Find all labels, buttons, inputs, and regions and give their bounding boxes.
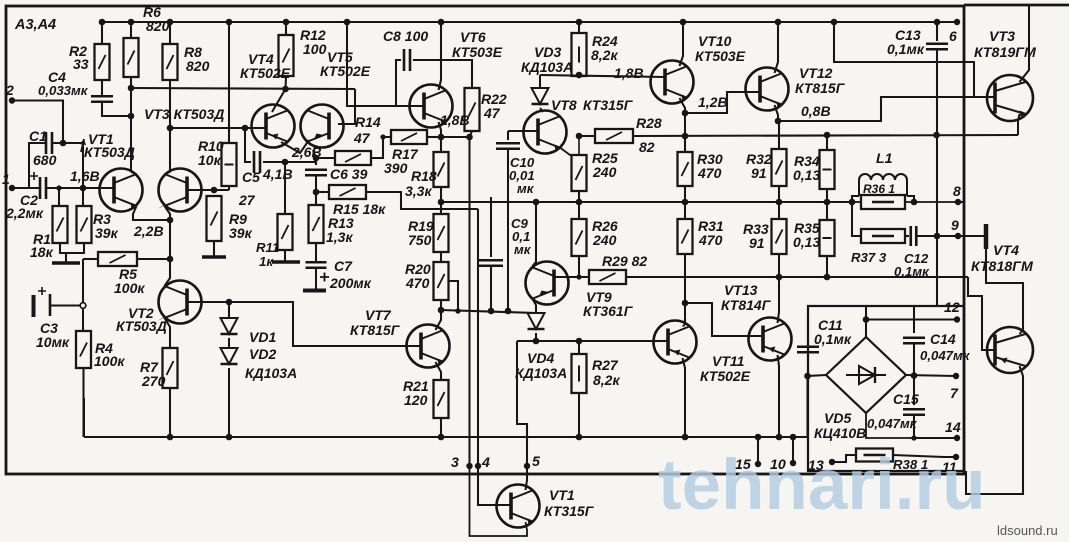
resistor R15 [329,185,366,199]
svg-text:VT3: VT3 [989,29,1015,45]
resistor R7 [163,348,178,388]
svg-text:91: 91 [751,165,767,181]
node node R9 top [211,187,218,194]
wire VT1 collector wire [130,77,132,172]
svg-text:1,6В: 1,6В [70,168,100,184]
node node R15 left [313,189,320,196]
wire R30 bottom wire [684,186,686,202]
node node VT3 collector [167,125,174,132]
capacitor C7 [306,262,327,268]
node node C13 top [934,19,941,26]
svg-text:120: 120 [404,392,428,408]
resistor R33 [772,219,787,254]
capacitor C2 [30,172,46,199]
wire VT3out coll wire [1020,5,1030,82]
svg-text:КТ361Г: КТ361Г [583,303,634,319]
svg-text:750: 750 [408,232,432,248]
wire bottom common bus [84,436,807,438]
node node R20 bottom [438,307,445,314]
wire VT2 base wire [187,301,229,303]
node node bus t10 [790,434,797,441]
svg-text:8,2к: 8,2к [593,372,620,388]
svg-text:0,1мк: 0,1мк [894,264,930,279]
wire VT10 to VT12 base [685,92,760,113]
resistor R27 [572,354,587,393]
svg-text:12: 12 [944,300,960,316]
wire C15 top wire [913,376,915,406]
wire R37 left wire [852,202,861,236]
wire R28 right wire / output line [633,135,1018,136]
resistor R2 [95,44,110,80]
capacitor C8 [404,49,410,71]
svg-text:2,2мк: 2,2мк [5,205,44,221]
node node C10 bot [505,308,512,315]
wire tail to VT2 [137,258,170,260]
resistor R35 [820,220,835,256]
wire R19 top wire [440,202,442,214]
node node VD4 bottom [533,338,540,345]
node node R27 bottom [576,434,583,441]
svg-text:8: 8 [953,183,961,199]
node terminal 8 [955,199,961,205]
capacitor C6 [305,170,327,176]
node node C2 out [56,185,61,190]
wire VD4 top wire [535,311,537,313]
wire bridge bottom wire [866,413,914,438]
wire R31 bottom wire [684,254,686,325]
node node VT6 coll top [438,19,445,26]
node node R18 bottom [438,199,445,206]
wire VT9 collector wire [533,299,537,311]
node node R27 top [576,338,583,345]
wire VT3out emit wire [1018,114,1020,135]
svg-text:14: 14 [945,420,961,436]
transistor VT4 out [987,327,1033,373]
node node bridge left [804,373,811,380]
node node rail R30 [682,199,689,206]
wire bottom bus left riser [83,398,85,437]
svg-text:C6 39: C6 39 [330,166,368,182]
node node R28 right [682,133,689,140]
svg-text:R14: R14 [355,114,381,130]
svg-text:R28: R28 [636,115,662,131]
svg-text:R29 82: R29 82 [602,253,647,269]
wire C3 right wire [51,304,80,306]
wire L1 right wire [907,196,914,202]
wire R21 bottom wire [440,418,442,437]
wire VT4out coll wire [966,366,1023,494]
wire VT9 emitter wire [533,202,537,266]
svg-text:КТ503Д: КТ503Д [84,144,135,160]
svg-text:VT7: VT7 [365,307,392,323]
wire C12 right wire [917,235,986,237]
wire VT4out emit feed [986,249,1023,330]
wire VD chain top [228,302,230,318]
wire base line VT10 [540,75,665,77]
node node R20 tap [455,308,460,313]
node terminal 12 [954,316,960,322]
node node C13 col [934,233,941,240]
wire R12 bottom wire [284,76,287,89]
capacitor C11 [797,347,819,353]
wire VT4 base wire [252,127,266,129]
transistor VT10 [651,61,694,104]
node terminal 2 [9,97,15,103]
wire C10 bottom wire [507,149,509,310]
wire VT3 emitter wire [165,206,171,220]
wire VT11 emit wire [683,358,686,437]
svg-text:VD1: VD1 [249,329,276,345]
svg-text:ldsound.ru: ldsound.ru [997,523,1058,538]
node node R12 top [283,19,290,26]
terminal bar VT4 base [984,224,989,249]
wire C9 column top [490,197,492,257]
node node C14 C15 mid [911,372,918,379]
svg-text:VT3 КТ503Д: VT3 КТ503Д [144,106,224,122]
svg-text:VD4: VD4 [527,350,554,366]
arrow to VT1 base [81,139,84,152]
resistor R26 [572,219,587,256]
wire R10 top wire [228,25,230,143]
wire collector line to VT4 base [170,127,260,129]
node node VT13 emit bus [776,434,783,441]
svg-text:82: 82 [639,139,655,155]
svg-text:3,3к: 3,3к [405,183,432,199]
node input node [80,185,87,192]
wire R31 top wire [684,202,686,219]
svg-text:КТ315Г: КТ315Г [583,97,634,113]
transistor VT12 [746,68,789,111]
svg-text:0,047мк: 0,047мк [867,416,918,431]
wire R25 top wire2 [578,136,580,155]
wire C5 node join [315,158,317,162]
capacitor C13 [926,44,948,50]
diode VD2 [221,348,238,364]
wire VT13 coll wire [778,277,780,323]
wire terminal 3 column [468,137,470,466]
wire ground stub left [65,253,67,262]
wire R9 bottom wire [213,241,215,256]
svg-text:КТ814Г: КТ814Г [721,297,772,313]
node terminal 13 [829,459,835,465]
node node VT6 base col [344,19,351,26]
resistor R13 [309,205,324,243]
wire terminal 8 stub [958,201,964,203]
wire C1 left wire [29,143,46,188]
wire R7 bottom wire [169,388,171,437]
wire VT4out emit wire [1020,330,1024,334]
node node R4 bus [83,436,85,438]
ground bar R11 [272,260,300,264]
ground bar C7 [303,289,326,293]
wire VT2 collector wire [165,262,171,286]
wire VT12 emitter line [778,97,974,121]
wire R29 left wire [554,276,589,278]
node terminal 10 [790,460,796,466]
wire VT5 collector wire [313,150,316,165]
resistor R24 [572,33,587,76]
svg-text:А3,А4: А3,А4 [14,17,56,33]
wire R36 right wire [905,201,958,203]
resistor R10 [222,143,237,186]
wire R15 right wire [366,192,478,209]
capacitor C12 [911,226,917,246]
wire R35 top wire [826,202,828,220]
wire VD4 to T5 wire [517,341,527,466]
wire VT5 base wire [338,89,355,124]
wire R10 bottom wire [228,186,230,190]
node node rail R34 [824,199,831,206]
node node VT13 base tap [682,300,689,307]
svg-text:3: 3 [451,455,459,471]
wire terminal 12 wire [866,318,957,320]
wire VT10 coll wire [680,22,684,66]
node node R21 bottom [438,434,445,441]
node node C4 join [128,113,135,120]
svg-text:0,1мк: 0,1мк [887,41,925,57]
wire R2 top wire [101,22,103,44]
svg-text:C15: C15 [893,391,919,407]
svg-text:VT13: VT13 [724,282,758,298]
svg-text:27: 27 [238,192,256,208]
node node VT5/R14 [313,155,320,162]
svg-text:VD5: VD5 [824,410,851,426]
svg-text:0,047мк: 0,047мк [920,348,971,363]
svg-text:1: 1 [2,171,10,187]
svg-text:VT11: VT11 [712,353,745,369]
wire R4 bottom wire [82,368,84,437]
node node C1 right [60,140,67,147]
node node C15 bottom [911,435,916,440]
node terminal 14 [954,435,960,441]
resistor R25 [572,155,587,191]
svg-text:R11: R11 [256,240,279,255]
wire R19 R20 wire [440,252,442,262]
node node VT12 coll [775,19,782,26]
inductor L1 [859,174,907,196]
resistor R32 [772,149,787,186]
capacitor C3 [34,287,51,317]
wire R13 bottom wire [315,243,317,262]
wire VD1 VD2 wire [228,338,230,348]
wire R33 top wire [778,202,780,219]
node node VT10 coll [680,19,687,26]
wire C1 right wire [52,143,83,188]
transistor VT2 [158,281,202,324]
capacitor C14 [903,338,925,344]
node node rail VT9em [533,199,540,206]
svg-text:VT12: VT12 [799,65,833,81]
wire R12 top wire [285,22,287,35]
resistor R11 [278,214,293,250]
svg-text:КТ503Е: КТ503Е [452,44,503,60]
wire VT13 emit wire [778,355,780,437]
svg-text:R36 1: R36 1 [863,182,895,196]
svg-text:VT10: VT10 [698,33,732,49]
wire terminal 14 wire [914,437,957,439]
wire R5 column [82,259,84,303]
node node R6 top [128,19,135,26]
wire VT8 base wire [508,130,538,132]
node node L1 left [849,199,856,206]
wire R32 bottom wire [778,186,780,202]
transistor VT6 [410,85,453,128]
resistor R6 [124,38,139,77]
node terminal 9 [955,233,961,239]
node node tail [167,256,174,263]
svg-text:КТ315Г: КТ315Г [544,503,595,519]
node node emitters [167,217,174,224]
svg-text:КТ815Г: КТ815Г [795,80,846,96]
wire VT7 coll wire [436,310,442,330]
bridge VD5 [826,337,906,413]
node node C5 tap [242,125,249,132]
wire R26 bottom wire [578,256,580,277]
svg-text:1,8В: 1,8В [614,65,644,81]
svg-text:КД103А: КД103А [515,365,567,381]
wire VT6 emitter wire [439,122,442,137]
transistor VT1 sensor [497,485,540,528]
svg-text:мк: мк [517,181,535,196]
wire R25 bottom wire [578,191,580,202]
wire VT3 collector wire [169,80,171,172]
resistor R12 [279,35,294,76]
wire C5 left wire [245,128,251,162]
node node VT9 base [576,274,581,279]
svg-text:VT1: VT1 [549,487,575,503]
resistor R38 [856,449,893,462]
wire R37 C12 wire [905,235,909,237]
wire VD3 top wire [539,75,541,88]
wire terminal 15 stub [757,437,759,464]
wire R24 top wire [578,22,580,33]
svg-text:КТ503Д: КТ503Д [116,318,167,334]
wire vplus branch [834,22,974,97]
wire VT3out base wire [974,96,995,98]
svg-text:4: 4 [481,455,490,471]
resistor R9 [207,196,222,241]
wire R34 bottom wire [826,189,828,202]
node node R12 bottom [282,86,289,93]
node node bridge top [863,316,870,323]
svg-text:470: 470 [698,232,723,248]
svg-text:L1: L1 [876,151,893,167]
resistor R36 [861,195,905,209]
svg-text:1,2В: 1,2В [698,94,728,110]
wire bridge left wire [808,375,827,376]
wire R14 to R17 wire [371,137,391,158]
wire R2 C4 wire [101,80,103,95]
wire R26 top wire [578,202,580,219]
svg-text:КТ819ГМ: КТ819ГМ [974,45,1037,61]
node terminal 6 [954,19,960,25]
wire output rail [441,201,852,203]
diode VD1 [221,318,238,334]
svg-text:VD2: VD2 [249,346,276,362]
resistor R8 [163,44,178,80]
svg-text:0,13: 0,13 [793,167,820,183]
wire VT4 emitter feed [272,89,286,112]
svg-text:91: 91 [749,235,765,251]
wire node X right [316,157,335,159]
svg-text:680: 680 [33,152,57,168]
wire C7 bottom wire [315,268,317,290]
svg-text:1,3к: 1,3к [326,229,353,245]
svg-text:КТ502Е: КТ502Е [240,65,291,81]
wire VT12 coll wire [775,22,779,73]
node node R8 top [167,19,174,26]
resistor R4 [76,331,91,368]
svg-text:100: 100 [303,41,327,57]
svg-text:10мк: 10мк [36,334,70,350]
svg-text:2: 2 [5,82,14,98]
node node R14/R17 [380,134,385,139]
wire R8 top wire [169,22,171,44]
wire R32 top wire [778,121,780,149]
wire R20 bottom wire [440,300,442,310]
node node VT1 coll link [128,85,135,92]
capacitor C1 [46,132,52,154]
wire VD4 node line [517,340,654,342]
svg-text:10к: 10к [198,152,222,168]
svg-text:R27: R27 [592,357,619,373]
capacitor C5 [254,151,260,173]
resistor R22 [465,88,480,131]
wire R18 bottom wire [440,187,442,202]
wire VT1 emitter wire [133,206,170,220]
svg-text:270: 270 [141,373,166,389]
node node VT6 emitter [438,134,445,141]
wire C8 left wire [396,60,401,106]
wire R35 bottom wire [826,256,828,277]
node terminal 1 [9,185,15,191]
node node VD2 bottom [226,434,233,441]
svg-text:КД103А: КД103А [521,59,573,75]
node node VT11 emit bus [682,434,689,441]
transistor VT4 [252,105,295,148]
transistor VT7 [407,325,450,368]
svg-text:КТ502Е: КТ502Е [320,63,371,79]
wire bus to bridge riser [806,376,808,437]
resistor R19 [434,214,449,252]
wire VT1 base wire [83,187,114,189]
wire VT1b coll wire [526,466,528,490]
node terminal 5 [524,463,530,469]
wire VT4out base wire [968,277,995,350]
node node VT12 emitter [775,118,782,125]
node ring C3/R4/R5 [80,303,86,309]
wire VD2 bottom wire [228,368,230,437]
wire R6 top wire [130,22,132,38]
svg-text:tehnari.ru: tehnari.ru [658,446,985,525]
wire C4 bottom wire [102,102,131,116]
node node C9 bot [488,308,495,315]
svg-text:47: 47 [483,105,501,121]
svg-text:VT4: VT4 [993,243,1019,259]
capacitor C15 [903,409,925,415]
wire VT11 coll wire [683,325,686,326]
svg-text:R18: R18 [411,168,437,184]
svg-text:470: 470 [405,275,430,291]
wire R22 bottom wire [470,131,473,137]
node node R24 bottom [576,72,583,79]
resistor R17 [391,130,427,144]
resistor R21 [434,380,449,418]
svg-text:0,13: 0,13 [793,234,820,250]
wire VT11 base wire [654,340,668,342]
svg-text:мк: мк [514,242,532,257]
wire R33 bottom wire [778,254,780,277]
